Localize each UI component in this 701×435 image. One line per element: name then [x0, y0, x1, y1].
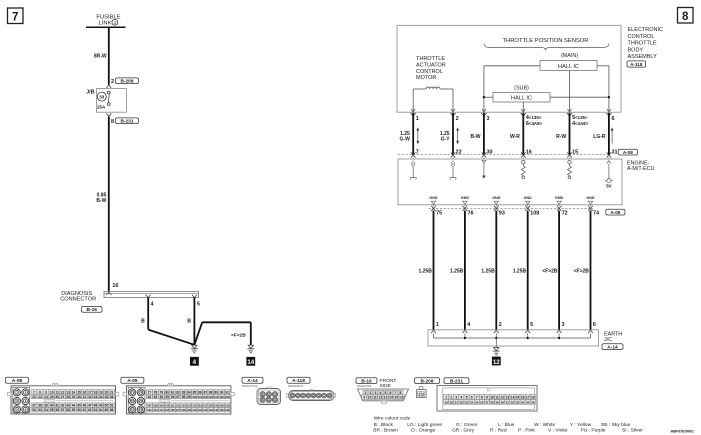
svg-text:2: 2 [456, 116, 459, 122]
ground wire 93 1.25B [481, 205, 505, 338]
svg-text:83: 83 [182, 390, 186, 394]
svg-text:133: 133 [209, 408, 214, 412]
svg-text:41: 41 [55, 404, 59, 408]
svg-text:30: 30 [501, 400, 505, 404]
svg-text:33: 33 [94, 395, 98, 399]
svg-text:P : Pink: P : Pink [518, 428, 535, 434]
svg-text:B: B [141, 319, 145, 325]
svg-text:B-W: B-W [96, 198, 106, 204]
svg-text:1.25B: 1.25B [513, 268, 527, 274]
svg-text:11: 11 [373, 396, 377, 400]
svg-text:71: 71 [131, 391, 135, 395]
svg-text:1.25B: 1.25B [450, 268, 464, 274]
svg-text:16: 16 [521, 396, 525, 400]
svg-text:85: 85 [193, 390, 197, 394]
svg-text:18: 18 [531, 396, 535, 400]
svg-text:35: 35 [526, 400, 530, 404]
svg-text:13: 13 [66, 390, 70, 394]
svg-text:46: 46 [83, 404, 87, 408]
svg-text:ELECTRONIC: ELECTRONIC [628, 27, 663, 33]
wire 5 main output R-W [556, 113, 589, 159]
svg-text:66: 66 [110, 408, 114, 412]
svg-text:63: 63 [94, 408, 98, 412]
svg-text:72: 72 [562, 210, 568, 216]
svg-text:61: 61 [83, 408, 87, 412]
svg-text:15: 15 [572, 149, 578, 155]
svg-text:L : Blue: L : Blue [498, 422, 515, 428]
svg-text:2: 2 [422, 392, 424, 396]
svg-text:37: 37 [32, 404, 36, 408]
svg-text:102: 102 [203, 395, 208, 399]
svg-text:76: 76 [468, 210, 474, 216]
connector A-08 label [618, 149, 637, 155]
svg-text:FRONT: FRONT [380, 378, 397, 384]
svg-text:112: 112 [176, 404, 181, 408]
svg-text:20: 20 [450, 400, 454, 404]
svg-text:(SUB): (SUB) [514, 85, 529, 91]
svg-text:ACTUATOR: ACTUATOR [416, 63, 446, 69]
svg-text:129: 129 [187, 408, 192, 412]
svg-text:106: 106 [225, 395, 230, 399]
svg-text:6: 6 [390, 391, 392, 395]
svg-text:GR : Grey: GR : Grey [452, 428, 475, 434]
svg-text:49: 49 [99, 404, 103, 408]
svg-text:84: 84 [187, 390, 191, 394]
earth joint connector A-14 [428, 330, 623, 351]
svg-text:131: 131 [198, 408, 203, 412]
svg-text:3: 3 [487, 116, 490, 122]
svg-text:120: 120 [219, 404, 224, 408]
electronic control throttle body assembly A-118 [397, 25, 663, 112]
svg-text:103: 103 [209, 395, 214, 399]
svg-text:1: 1 [365, 391, 367, 395]
ground wire 74 F2B [574, 205, 596, 338]
svg-text:121: 121 [225, 404, 230, 408]
svg-text:3: 3 [375, 391, 377, 395]
svg-text:115: 115 [192, 404, 197, 408]
connector pinout A-08 [6, 377, 119, 414]
svg-text:16: 16 [526, 149, 532, 155]
svg-text:1.25B: 1.25B [481, 268, 495, 274]
connector pinout A-09 [121, 377, 234, 414]
svg-text:13: 13 [384, 396, 388, 400]
page number 8 [678, 8, 694, 24]
svg-text:100: 100 [192, 395, 197, 399]
svg-text:117: 117 [203, 404, 208, 408]
svg-text:19: 19 [444, 400, 448, 404]
svg-text:105: 105 [219, 395, 224, 399]
svg-text:111: 111 [171, 404, 176, 408]
ECU driver wire 2 [450, 161, 456, 180]
svg-text:57: 57 [61, 408, 65, 412]
svg-text:126: 126 [170, 408, 175, 412]
svg-text:8: 8 [481, 396, 483, 400]
svg-text:W-R: W-R [510, 134, 520, 140]
svg-text:R-W: R-W [556, 134, 566, 140]
svg-text:SB : Sky blue: SB : Sky blue [601, 422, 631, 428]
wire colour code [373, 416, 643, 434]
connector B-231 pin 8 [106, 113, 138, 125]
svg-text:72: 72 [139, 391, 143, 395]
svg-text:14: 14 [511, 396, 515, 400]
svg-text:51: 51 [110, 404, 114, 408]
throttle actuator control motor [411, 56, 455, 112]
svg-text:20: 20 [104, 390, 108, 394]
svg-text:38: 38 [38, 404, 42, 408]
svg-text:93: 93 [499, 210, 505, 216]
svg-text:62: 62 [88, 408, 92, 412]
svg-text:B-208: B-208 [120, 78, 133, 84]
svg-text:75: 75 [131, 408, 135, 412]
svg-text:R : Red: R : Red [490, 428, 507, 434]
svg-text:22: 22 [456, 149, 462, 155]
ECU GND row [429, 196, 438, 204]
svg-text:7: 7 [395, 391, 397, 395]
svg-text:16: 16 [400, 396, 404, 400]
svg-text:74: 74 [593, 210, 599, 216]
svg-text:12: 12 [493, 359, 500, 366]
svg-text:14: 14 [389, 396, 393, 400]
svg-text:113: 113 [181, 404, 186, 408]
connector pinout A-118 [287, 377, 336, 400]
svg-text:28: 28 [66, 395, 70, 399]
svg-text:28: 28 [490, 400, 494, 404]
ground 4 [190, 345, 199, 366]
svg-text:4: 4 [193, 359, 197, 366]
svg-text:52: 52 [32, 408, 36, 412]
svg-text:GND: GND [492, 196, 501, 200]
svg-text:B-231: B-231 [120, 118, 133, 124]
svg-text:32: 32 [511, 400, 515, 404]
svg-text:Y : Yellow: Y : Yellow [570, 422, 592, 428]
svg-text:33: 33 [516, 400, 520, 404]
svg-text:34: 34 [521, 400, 525, 404]
svg-text:10: 10 [490, 396, 494, 400]
svg-text:B-16: B-16 [87, 307, 98, 313]
svg-text:16: 16 [83, 390, 87, 394]
svg-text:A-M/T-ECU: A-M/T-ECU [627, 166, 655, 172]
svg-text:A-118: A-118 [292, 378, 305, 384]
svg-text:B: B [187, 319, 191, 325]
svg-text:65: 65 [104, 408, 108, 412]
wire 2 motor drive 1.25 G-Y [440, 113, 462, 159]
svg-text:98: 98 [182, 395, 186, 399]
svg-text:26: 26 [480, 400, 484, 404]
svg-text:B-208: B-208 [420, 378, 433, 384]
svg-text:V : Violet: V : Violet [548, 428, 568, 434]
wire 8R-W [94, 27, 109, 85]
svg-text:17: 17 [88, 390, 92, 394]
svg-text:A-09: A-09 [127, 378, 138, 384]
svg-text:15: 15 [516, 396, 520, 400]
connector pinout B-231 [437, 378, 537, 411]
svg-text:7: 7 [416, 149, 419, 155]
svg-text:31: 31 [506, 400, 510, 404]
svg-text:1: 1 [436, 322, 439, 328]
svg-text:43: 43 [66, 404, 70, 408]
svg-text:0N4062001: 0N4062001 [288, 384, 304, 388]
svg-text:59: 59 [72, 408, 76, 412]
connector B-208 pin 2 [106, 78, 138, 88]
ground wire 76 1.25B [450, 205, 474, 338]
svg-text:THROTTLE: THROTTLE [416, 56, 445, 62]
svg-text:25: 25 [50, 395, 54, 399]
svg-text:5: 5 [530, 322, 533, 328]
svg-text:15: 15 [395, 396, 399, 400]
ECU box ENGINE-A-M/T-ECU [398, 159, 655, 205]
svg-text:1: 1 [445, 396, 447, 400]
svg-text:116: 116 [198, 404, 203, 408]
svg-text:31: 31 [612, 149, 618, 155]
svg-text:123: 123 [153, 408, 158, 412]
svg-text:BR : Brown: BR : Brown [373, 428, 398, 434]
wire 1 motor drive 1.25 G-W [400, 113, 419, 159]
svg-text:60: 60 [77, 408, 81, 412]
svg-text:B-W: B-W [471, 134, 481, 140]
svg-text:54: 54 [44, 408, 48, 412]
junction block J/B [86, 89, 126, 113]
svg-text:119: 119 [214, 404, 219, 408]
svg-text:58: 58 [66, 408, 70, 412]
svg-text:A-08: A-08 [12, 378, 23, 384]
svg-text:THROTTLE: THROTTLE [628, 41, 657, 47]
svg-text:23: 23 [465, 400, 469, 404]
svg-text:6: 6 [471, 396, 473, 400]
svg-text:ASSEMBLY: ASSEMBLY [628, 54, 658, 60]
svg-text:11: 11 [55, 390, 59, 394]
svg-text:21: 21 [110, 390, 114, 394]
wire 3 sensor ground B-W [471, 113, 493, 159]
svg-text:G-Y: G-Y [441, 137, 451, 143]
svg-text:4: 4 [380, 391, 382, 395]
svg-text:GND: GND [429, 196, 438, 200]
svg-text:<F>2B: <F>2B [231, 333, 246, 339]
svg-text:Wire colour code: Wire colour code [374, 416, 411, 422]
svg-text:LG-R: LG-R [593, 134, 606, 140]
arrow up wire 6 [611, 127, 614, 143]
svg-text:8R-W: 8R-W [94, 53, 107, 59]
throttle position sensor label [484, 38, 609, 50]
svg-text:J/B: J/B [86, 90, 94, 96]
svg-text:50: 50 [104, 404, 108, 408]
svg-text:A-118: A-118 [630, 62, 643, 67]
svg-text:W : White: W : White [534, 422, 555, 428]
svg-text:SI : Silver: SI : Silver [622, 428, 643, 434]
svg-text:A-14: A-14 [607, 344, 618, 350]
svg-text:45: 45 [77, 404, 81, 408]
diagnosis connector B-16 [60, 283, 198, 313]
svg-text:44: 44 [72, 404, 76, 408]
svg-text:78: 78 [154, 390, 158, 394]
svg-text:86: 86 [198, 390, 202, 394]
svg-text:8: 8 [400, 391, 402, 395]
svg-text:<F>2B: <F>2B [574, 268, 590, 274]
svg-text:GND: GND [586, 196, 595, 200]
svg-text:8: 8 [39, 390, 41, 394]
svg-text:14: 14 [72, 390, 76, 394]
svg-text:7: 7 [12, 12, 18, 24]
svg-text:97: 97 [176, 395, 180, 399]
svg-text:J/C: J/C [604, 337, 612, 343]
svg-text:2: 2 [111, 79, 114, 85]
svg-text:92: 92 [148, 395, 152, 399]
wire 6 5V feed LG-R [593, 113, 617, 159]
svg-text:110: 110 [165, 404, 170, 408]
svg-text:47: 47 [88, 404, 92, 408]
ECU 5V supply wire 6 [605, 161, 612, 189]
svg-text:73: 73 [131, 399, 135, 403]
svg-text:4: 4 [461, 396, 463, 400]
svg-text:76: 76 [139, 408, 143, 412]
wire F2B to ground 14 [194, 322, 250, 345]
svg-text:128: 128 [181, 408, 186, 412]
svg-text:2: 2 [450, 396, 452, 400]
svg-text:4: 4 [151, 301, 154, 307]
svg-text:18: 18 [94, 390, 98, 394]
svg-text:MOTOR: MOTOR [416, 75, 436, 81]
svg-text:35: 35 [104, 395, 108, 399]
arrow both ways wire 1 [416, 127, 419, 144]
svg-text:53: 53 [38, 408, 42, 412]
svg-text:34: 34 [99, 395, 103, 399]
svg-text:132: 132 [203, 408, 208, 412]
svg-text:109: 109 [159, 404, 164, 408]
svg-text:75: 75 [436, 210, 442, 216]
svg-text:22: 22 [460, 400, 464, 404]
svg-text:93: 93 [154, 395, 158, 399]
svg-text:29: 29 [495, 400, 499, 404]
svg-text:99: 99 [187, 395, 191, 399]
svg-text:H8F07E000C: H8F07E000C [671, 428, 694, 433]
svg-text:9: 9 [45, 390, 47, 394]
svg-text:108: 108 [530, 210, 539, 216]
svg-text:9: 9 [486, 396, 488, 400]
svg-text:23: 23 [38, 395, 42, 399]
svg-text:136: 136 [225, 408, 230, 412]
svg-text:127: 127 [176, 408, 181, 412]
svg-text:32: 32 [88, 395, 92, 399]
connector pinout A-14 [242, 377, 281, 404]
svg-text:1: 1 [418, 392, 420, 396]
svg-text:124: 124 [159, 408, 164, 412]
svg-text:107: 107 [147, 404, 152, 408]
svg-text:33: 33 [99, 95, 105, 100]
svg-text:135: 135 [219, 408, 224, 412]
connector pinout B-208 [415, 378, 440, 398]
svg-text:95: 95 [165, 395, 169, 399]
svg-text:B : Black: B : Black [374, 422, 394, 428]
svg-text:19: 19 [99, 390, 103, 394]
svg-text:104: 104 [214, 395, 219, 399]
svg-text:55: 55 [50, 408, 54, 412]
svg-text:114: 114 [187, 404, 192, 408]
connector A-09 label [593, 209, 625, 216]
svg-text:12: 12 [500, 396, 504, 400]
sensor internal wiring [482, 66, 611, 112]
fusible link 4 [86, 14, 126, 27]
svg-text:7: 7 [33, 390, 35, 394]
svg-text:26: 26 [55, 395, 59, 399]
svg-text:30: 30 [487, 149, 493, 155]
svg-text:81: 81 [171, 390, 175, 394]
svg-text:1.25B: 1.25B [419, 268, 433, 274]
diagnosis pin 4 [146, 295, 154, 308]
svg-text:64: 64 [99, 408, 103, 412]
svg-text:25: 25 [475, 400, 479, 404]
fuse 33 15A [97, 91, 110, 110]
connector pinout B-16 [356, 378, 409, 404]
svg-text:O : Orange: O : Orange [411, 428, 435, 434]
svg-text:LINK: LINK [99, 20, 112, 26]
svg-text:36: 36 [531, 400, 535, 404]
svg-text:(MAIN): (MAIN) [561, 53, 578, 59]
ground 14 [246, 345, 255, 366]
wire 4 sub output W-R [510, 113, 543, 159]
svg-text:36: 36 [110, 395, 114, 399]
svg-text:79: 79 [160, 390, 164, 394]
svg-text:A-14: A-14 [247, 378, 258, 384]
ECU sensor ground wire 3 [482, 160, 486, 178]
svg-text:G-W: G-W [400, 137, 411, 143]
svg-text:77: 77 [148, 390, 152, 394]
svg-text:5: 5 [466, 396, 468, 400]
ground wire 72 F2B [542, 205, 567, 338]
svg-text:LG : Light green: LG : Light green [407, 422, 442, 428]
svg-text:91: 91 [225, 390, 229, 394]
svg-text:40: 40 [50, 404, 54, 408]
svg-text:1: 1 [416, 116, 419, 122]
svg-text:89: 89 [214, 390, 218, 394]
svg-text:15: 15 [77, 390, 81, 394]
svg-text:27: 27 [485, 400, 489, 404]
svg-text:10: 10 [50, 390, 54, 394]
svg-text:29: 29 [72, 395, 76, 399]
svg-text:27: 27 [61, 395, 65, 399]
svg-text:7: 7 [476, 396, 478, 400]
svg-text:0N4027542: 0N4027542 [242, 384, 258, 388]
svg-text:94: 94 [160, 395, 164, 399]
svg-text:90: 90 [220, 390, 224, 394]
svg-text:31: 31 [83, 395, 87, 399]
wire B from pin 4 [141, 298, 194, 345]
wire 0.85 B-W [96, 117, 108, 292]
svg-text:30: 30 [77, 395, 81, 399]
svg-text:16: 16 [112, 283, 118, 289]
svg-text:88: 88 [209, 390, 213, 394]
svg-text:8: 8 [682, 11, 689, 23]
svg-text:6: 6 [593, 322, 596, 328]
svg-text:5V: 5V [606, 184, 611, 189]
svg-text:CONNECTOR: CONNECTOR [60, 296, 96, 302]
svg-text:80: 80 [165, 390, 169, 394]
svg-text:SIDE: SIDE [380, 383, 392, 389]
svg-text:134: 134 [214, 408, 219, 412]
svg-text:GND: GND [524, 196, 533, 200]
svg-text:5: 5 [385, 391, 387, 395]
svg-text:74: 74 [139, 399, 143, 403]
connector A-09 dashed line [429, 207, 594, 209]
svg-text:2: 2 [370, 391, 372, 395]
svg-text:10: 10 [368, 396, 372, 400]
svg-text:108: 108 [153, 404, 158, 408]
svg-text:12: 12 [61, 390, 65, 394]
svg-text:12: 12 [378, 396, 382, 400]
svg-text:21: 21 [455, 400, 459, 404]
svg-text:17: 17 [526, 396, 530, 400]
svg-text:9: 9 [363, 396, 365, 400]
ECU pull-up resistor wire 5 [568, 161, 572, 179]
svg-text:HALL IC: HALL IC [558, 64, 579, 70]
